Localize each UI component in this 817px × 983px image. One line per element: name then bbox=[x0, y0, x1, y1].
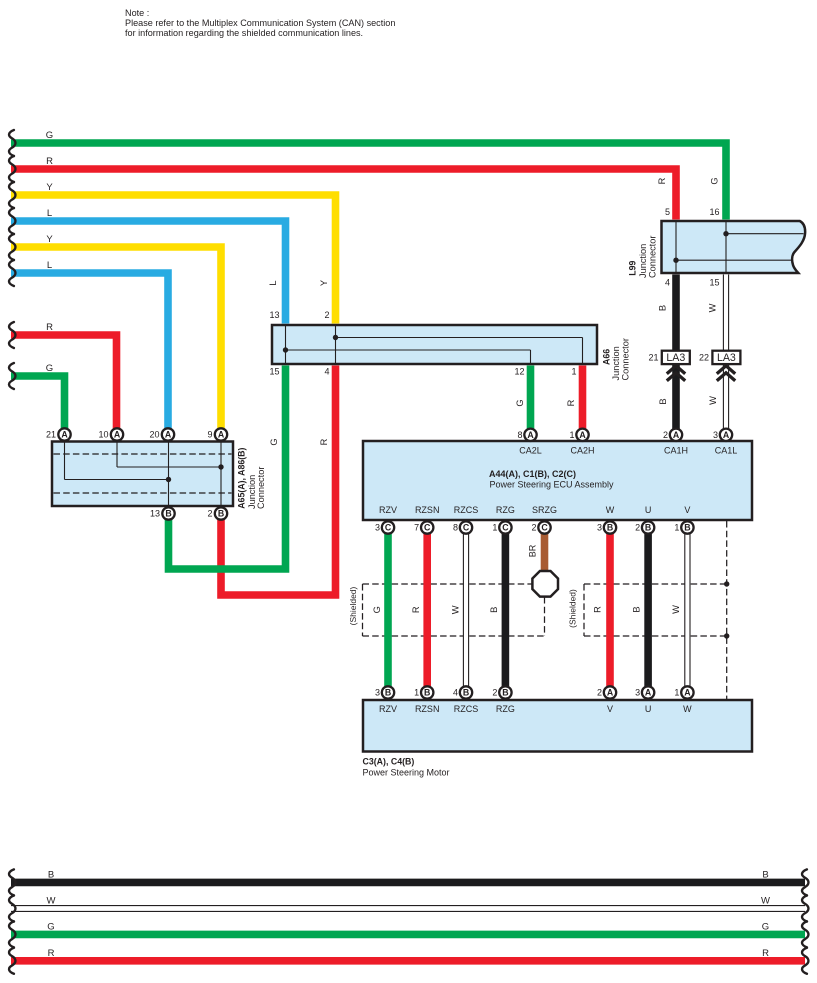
wire SRZG BR (ECU to shield symbol) bbox=[541, 534, 549, 572]
wire RZSN R (ECU to motor) bbox=[423, 534, 431, 688]
break symbol wire R (to A65) bbox=[9, 322, 15, 348]
svg-text:Y: Y bbox=[46, 182, 53, 193]
wire W bottom bus bbox=[11, 906, 805, 912]
wire B bottom bus bbox=[11, 879, 805, 887]
A66 internal link to pin12 bbox=[286, 349, 531, 351]
A66 internal junction dot pin2 bbox=[333, 335, 338, 340]
svg-text:A: A bbox=[218, 430, 225, 440]
svg-text:R: R bbox=[762, 948, 769, 959]
A65 internal link pin20-pin13 bbox=[168, 442, 170, 506]
svg-text:21: 21 bbox=[46, 430, 56, 440]
svg-text:1: 1 bbox=[674, 523, 679, 533]
svg-text:L: L bbox=[47, 208, 52, 219]
pin 4(B) RZCS of motor bbox=[460, 686, 472, 698]
svg-text:8: 8 bbox=[517, 430, 522, 440]
A66 internal link pin2-pin4 bbox=[335, 326, 337, 364]
splice LA3 (pin 22) box bbox=[712, 351, 740, 365]
wire RZCS W (ECU to motor) bbox=[463, 534, 468, 688]
pin 8(A) CA2L of ECU bbox=[524, 429, 536, 441]
pin 3(A) U of motor bbox=[642, 686, 654, 698]
svg-text:RZV: RZV bbox=[379, 704, 397, 714]
pin 1(A) CA2H of ECU bbox=[576, 429, 588, 441]
wire G (to A65 pin 21) bbox=[11, 376, 65, 430]
svg-text:2: 2 bbox=[635, 523, 640, 533]
svg-text:L99: L99 bbox=[627, 261, 637, 276]
svg-text:8: 8 bbox=[453, 523, 458, 533]
svg-text:B: B bbox=[463, 688, 469, 698]
break symbol bottom wire R left bbox=[9, 948, 15, 974]
wire B (ECU U to motor U) bbox=[644, 534, 652, 688]
break symbol bottom wire W right bbox=[802, 896, 808, 922]
svg-text:1: 1 bbox=[492, 523, 497, 533]
wire R (ECU W to motor V) bbox=[606, 534, 614, 688]
svg-text:RZG: RZG bbox=[496, 704, 515, 714]
break symbol CAN wire G bbox=[9, 130, 15, 156]
svg-text:Power Steering Motor: Power Steering Motor bbox=[363, 768, 450, 778]
L99 internal bus to edge upper bbox=[726, 233, 804, 235]
svg-text:V: V bbox=[607, 704, 613, 714]
svg-text:R: R bbox=[411, 606, 421, 613]
svg-text:5: 5 bbox=[665, 207, 670, 217]
svg-text:B: B bbox=[424, 688, 430, 698]
wire R bottom bus bbox=[11, 957, 805, 965]
A65 internal junction dot 10-9-2 bbox=[218, 464, 223, 469]
A65 internal link pin10 bbox=[116, 442, 118, 467]
L99 internal bus to edge lower bbox=[676, 259, 792, 261]
svg-text:R: R bbox=[566, 399, 576, 406]
svg-text:21: 21 bbox=[648, 352, 658, 362]
svg-text:B: B bbox=[631, 606, 641, 612]
break symbol bottom wire G left bbox=[9, 921, 15, 947]
splice LA3 (pin 21) box bbox=[662, 351, 690, 365]
svg-text:W: W bbox=[47, 896, 56, 907]
svg-text:3: 3 bbox=[375, 688, 380, 698]
pin 2(C) SRZG of ECU bbox=[538, 521, 550, 533]
svg-text:G: G bbox=[515, 399, 525, 406]
pin 2(B) U of ECU bbox=[642, 521, 654, 533]
wire G (A66 pin 12 to ECU CA2L) bbox=[527, 366, 535, 430]
pin 8(C) RZCS of ECU bbox=[460, 521, 472, 533]
svg-text:SRZG: SRZG bbox=[532, 505, 557, 515]
svg-text:A: A bbox=[114, 430, 121, 440]
svg-text:RZV: RZV bbox=[379, 505, 397, 515]
pin 9(A) of A65 bbox=[215, 428, 227, 440]
svg-text:A: A bbox=[527, 430, 534, 440]
wire G (A65 pin 13 to A66 pin 15) bbox=[169, 366, 286, 570]
svg-text:2: 2 bbox=[207, 509, 212, 519]
svg-text:3: 3 bbox=[597, 523, 602, 533]
connector pass-through arrows wire W bbox=[717, 366, 735, 381]
svg-text:RZG: RZG bbox=[496, 505, 515, 515]
svg-text:Note :: Note : bbox=[125, 8, 149, 18]
wire B (L99 pin 4 via LA3 to ECU CA1H) bbox=[672, 275, 680, 430]
svg-text:LA3: LA3 bbox=[666, 352, 685, 364]
svg-text:2: 2 bbox=[531, 523, 536, 533]
pin 3(B) RZV of motor bbox=[382, 686, 394, 698]
svg-text:2: 2 bbox=[324, 310, 329, 320]
svg-text:Power Steering ECU Assembly: Power Steering ECU Assembly bbox=[490, 480, 615, 490]
svg-text:CA2H: CA2H bbox=[570, 446, 594, 456]
svg-text:22: 22 bbox=[699, 352, 709, 362]
A65 internal junction dot 21-20-13 bbox=[166, 477, 171, 482]
wire R (CAN bus to L99 pin 5) bbox=[11, 169, 676, 220]
svg-text:B: B bbox=[165, 509, 171, 519]
A65 internal dashed partition lower bbox=[54, 492, 232, 494]
svg-text:13: 13 bbox=[269, 310, 279, 320]
svg-text:A66: A66 bbox=[602, 349, 612, 365]
break symbol wire G (to A65) bbox=[9, 363, 15, 389]
junction connector A65(A)/A86(B) body bbox=[52, 442, 233, 507]
svg-text:B: B bbox=[502, 688, 508, 698]
power steering ECU assembly A44(A),C1(B),C2(C) body bbox=[363, 441, 752, 520]
wire W (L99 pin 15 via LA3 to ECU CA1L) bbox=[723, 275, 728, 430]
svg-text:(Shielded): (Shielded) bbox=[348, 586, 358, 625]
svg-text:2: 2 bbox=[597, 688, 602, 698]
svg-text:G: G bbox=[47, 921, 54, 932]
svg-text:B: B bbox=[684, 523, 690, 533]
svg-text:L: L bbox=[268, 280, 278, 285]
break symbol bottom wire G right bbox=[802, 921, 808, 947]
svg-text:W: W bbox=[451, 605, 461, 614]
svg-text:A: A bbox=[673, 430, 680, 440]
svg-text:A: A bbox=[684, 688, 691, 698]
svg-text:R: R bbox=[592, 606, 602, 613]
svg-text:4: 4 bbox=[453, 688, 458, 698]
pin 21(A) of A65 bbox=[58, 428, 70, 440]
svg-text:R: R bbox=[46, 156, 53, 167]
svg-text:C: C bbox=[424, 523, 431, 533]
svg-text:Connector: Connector bbox=[620, 338, 630, 380]
svg-text:U: U bbox=[645, 505, 652, 515]
pin 2(B) of A86 bbox=[215, 507, 227, 519]
shield drain junction dot upper bbox=[724, 581, 729, 586]
svg-text:CA2L: CA2L bbox=[519, 446, 542, 456]
svg-text:10: 10 bbox=[98, 430, 108, 440]
svg-text:(Shielded): (Shielded) bbox=[568, 589, 578, 628]
svg-text:RZCS: RZCS bbox=[454, 704, 479, 714]
svg-text:3: 3 bbox=[713, 430, 718, 440]
svg-text:RZSN: RZSN bbox=[415, 505, 440, 515]
svg-text:C: C bbox=[541, 523, 548, 533]
wire G bottom bus bbox=[11, 931, 805, 939]
svg-text:13: 13 bbox=[150, 509, 160, 519]
wire R (A66 pin 1 to ECU CA2H) bbox=[579, 366, 587, 430]
svg-text:BR: BR bbox=[527, 544, 537, 557]
pin 1(A) W of motor bbox=[681, 686, 693, 698]
svg-text:3: 3 bbox=[375, 523, 380, 533]
svg-text:A: A bbox=[579, 430, 586, 440]
svg-text:G: G bbox=[710, 177, 720, 184]
svg-text:G: G bbox=[46, 363, 53, 374]
svg-text:R: R bbox=[46, 322, 53, 333]
svg-text:V: V bbox=[684, 505, 690, 515]
svg-text:1: 1 bbox=[674, 688, 679, 698]
svg-text:W: W bbox=[708, 396, 718, 405]
svg-text:7: 7 bbox=[414, 523, 419, 533]
svg-text:for information regarding the: for information regarding the shielded c… bbox=[125, 28, 363, 38]
svg-text:RZCS: RZCS bbox=[454, 505, 479, 515]
svg-text:R: R bbox=[319, 438, 329, 445]
svg-text:C3(A), C4(B): C3(A), C4(B) bbox=[363, 757, 415, 767]
wire RZG B (ECU to motor) bbox=[502, 534, 510, 688]
A65 internal link pin9-pin2 bbox=[220, 442, 222, 506]
pin 10(A) of A65 bbox=[111, 428, 123, 440]
L99 internal link pin5-pin4 bbox=[675, 222, 677, 272]
svg-text:1: 1 bbox=[414, 688, 419, 698]
break symbol bottom wire R right bbox=[802, 948, 808, 974]
svg-text:G: G bbox=[762, 921, 769, 932]
A66 internal link to pin1 bbox=[336, 337, 583, 339]
svg-text:16: 16 bbox=[709, 207, 719, 217]
svg-text:B: B bbox=[385, 688, 391, 698]
shield boundary left, right edge below shield symbol bbox=[544, 597, 546, 636]
shield boundary right (V/U/W) rectangle bbox=[584, 583, 727, 585]
svg-text:G: G bbox=[46, 130, 53, 141]
connector pass-through arrows wire B bbox=[667, 366, 685, 381]
svg-text:A44(A), C1(B), C2(C): A44(A), C1(B), C2(C) bbox=[489, 469, 576, 479]
svg-text:B: B bbox=[607, 523, 613, 533]
power steering motor C3(A),C4(B) body bbox=[363, 700, 752, 752]
svg-text:B: B bbox=[48, 869, 54, 880]
svg-text:C: C bbox=[385, 523, 392, 533]
shield boundary left, left edge bbox=[362, 584, 364, 636]
svg-text:L: L bbox=[47, 260, 52, 271]
break symbol bottom wire W left bbox=[9, 896, 15, 922]
break symbol wire L upper bbox=[9, 208, 15, 234]
pin 13(B) of A86 bbox=[162, 507, 174, 519]
svg-text:B: B bbox=[645, 523, 651, 533]
wire W (ECU V to motor W) bbox=[685, 534, 690, 688]
svg-text:A: A bbox=[61, 430, 68, 440]
break symbol wire L lower bbox=[9, 260, 15, 286]
pin 1(B) V of ECU bbox=[681, 521, 693, 533]
pin 2(B) RZG of motor bbox=[499, 686, 511, 698]
svg-text:B: B bbox=[762, 869, 768, 880]
svg-text:9: 9 bbox=[207, 430, 212, 440]
svg-text:B: B bbox=[489, 607, 499, 613]
wire Y (to A65 pin 9) bbox=[11, 247, 221, 430]
svg-text:R: R bbox=[48, 948, 55, 959]
pin 2(A) CA1H of ECU bbox=[670, 429, 682, 441]
pin 7(C) RZSN of ECU bbox=[421, 521, 433, 533]
shield drain junction dot lower bbox=[724, 633, 729, 638]
svg-text:C: C bbox=[502, 523, 509, 533]
svg-text:4: 4 bbox=[665, 278, 670, 288]
svg-text:2: 2 bbox=[492, 688, 497, 698]
svg-text:20: 20 bbox=[149, 430, 159, 440]
svg-text:Y: Y bbox=[46, 234, 53, 245]
wire Y (to A66 pin 2) bbox=[11, 195, 336, 324]
A66 internal junction dot pin13 bbox=[283, 347, 288, 352]
wire G (CAN bus to L99 pin 16) bbox=[11, 143, 726, 220]
svg-text:2: 2 bbox=[663, 430, 668, 440]
junction connector L99 body bbox=[662, 221, 806, 273]
wire L (to A66 pin 13) bbox=[11, 221, 286, 324]
junction connector A66 body bbox=[272, 325, 597, 364]
svg-text:B: B bbox=[218, 509, 224, 519]
wire RZV G (ECU to motor) bbox=[384, 534, 392, 688]
svg-text:A: A bbox=[607, 688, 614, 698]
svg-text:4: 4 bbox=[324, 367, 329, 377]
pin 3(B) W of ECU bbox=[604, 521, 616, 533]
svg-text:15: 15 bbox=[709, 278, 719, 288]
svg-text:A: A bbox=[165, 430, 172, 440]
svg-text:W: W bbox=[707, 303, 717, 312]
pin 1(C) RZG of ECU bbox=[499, 521, 511, 533]
A65 internal link pin21 bbox=[64, 442, 66, 480]
svg-text:A: A bbox=[645, 688, 652, 698]
shield drain dashed line to motor bbox=[726, 521, 728, 699]
break symbol bottom wire B right bbox=[802, 869, 808, 895]
svg-text:C: C bbox=[463, 523, 470, 533]
L99 internal junction dot pin16 bbox=[723, 231, 728, 236]
pin 2(A) V of motor bbox=[604, 686, 616, 698]
svg-text:CA1H: CA1H bbox=[664, 446, 688, 456]
svg-text:Please refer to the Multiplex: Please refer to the Multiplex Communicat… bbox=[125, 18, 395, 28]
break symbol bottom wire B left bbox=[9, 869, 15, 895]
svg-text:CA1L: CA1L bbox=[715, 446, 738, 456]
svg-text:3: 3 bbox=[635, 688, 640, 698]
shield ground symbol (octagon) for SRZG bbox=[532, 571, 558, 597]
A66 internal link pin13-pin15 bbox=[285, 326, 287, 364]
svg-text:15: 15 bbox=[269, 367, 279, 377]
A65 internal dashed partition upper bbox=[54, 453, 232, 455]
pin 20(A) of A65 bbox=[162, 428, 174, 440]
pin 1(B) RZSN of motor bbox=[421, 686, 433, 698]
L99 internal junction dot pin5 bbox=[673, 258, 678, 263]
svg-text:Connector: Connector bbox=[647, 236, 657, 278]
pin 3(C) RZV of ECU bbox=[382, 521, 394, 533]
svg-text:1: 1 bbox=[569, 430, 574, 440]
svg-text:R: R bbox=[657, 177, 667, 184]
wire R (A65 pin 2 to A66 pin 4) bbox=[221, 366, 336, 596]
svg-text:G: G bbox=[269, 438, 279, 445]
svg-text:LA3: LA3 bbox=[717, 352, 736, 364]
svg-text:U: U bbox=[645, 704, 652, 714]
svg-text:12: 12 bbox=[514, 367, 524, 377]
svg-text:B: B bbox=[657, 305, 667, 311]
svg-text:Connector: Connector bbox=[256, 467, 266, 509]
svg-text:RZSN: RZSN bbox=[415, 704, 440, 714]
break symbol CAN wire R bbox=[9, 156, 15, 182]
break symbol wire Y upper bbox=[9, 182, 15, 208]
wire L (to A65 pin 20) bbox=[11, 273, 168, 430]
svg-text:W: W bbox=[761, 896, 770, 907]
svg-text:B: B bbox=[658, 398, 668, 404]
svg-text:A: A bbox=[723, 430, 730, 440]
svg-text:A65(A), A86(B): A65(A), A86(B) bbox=[237, 447, 247, 508]
L99 internal link pin16-pin15 bbox=[725, 222, 727, 272]
svg-text:G: G bbox=[372, 606, 382, 613]
pin 3(A) CA1L of ECU bbox=[720, 429, 732, 441]
svg-text:W: W bbox=[683, 704, 692, 714]
svg-text:W: W bbox=[606, 505, 615, 515]
shield boundary left (RZV/RZSN/RZCS/RZG) top edge bbox=[363, 583, 533, 585]
shield boundary left, bottom edge bbox=[363, 635, 545, 637]
break symbol wire Y lower bbox=[9, 234, 15, 260]
wire R (to A65 pin 10) bbox=[11, 335, 117, 430]
svg-text:W: W bbox=[671, 605, 681, 614]
svg-text:1: 1 bbox=[571, 367, 576, 377]
svg-text:Y: Y bbox=[319, 280, 329, 286]
